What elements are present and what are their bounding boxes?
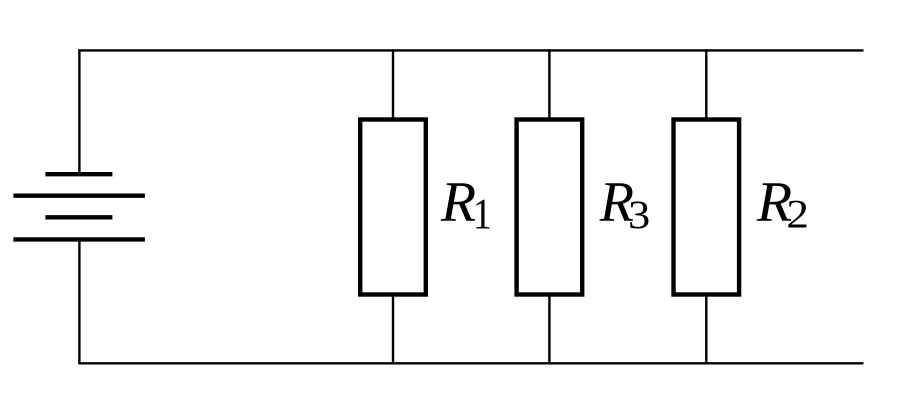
resistor R1: [360, 120, 426, 295]
resistor R2: [674, 120, 740, 295]
battery B1: [13, 174, 145, 239]
wire battery bottom lead: [78, 239, 80, 364]
wire R3 bottom lead: [548, 295, 550, 364]
label R3: [599, 183, 648, 228]
label R1: [441, 183, 490, 228]
wire R2 bottom lead: [705, 295, 707, 364]
wire R1 top lead: [392, 49, 394, 119]
resistor R3: [517, 120, 583, 295]
wire battery top lead: [78, 49, 80, 174]
wire R3 top lead: [548, 49, 550, 119]
label R2: [757, 183, 807, 227]
top rail wire: [78, 49, 863, 51]
wire R2 top lead: [705, 49, 707, 119]
wire R1 bottom lead: [392, 295, 394, 364]
bottom rail wire: [78, 362, 863, 364]
